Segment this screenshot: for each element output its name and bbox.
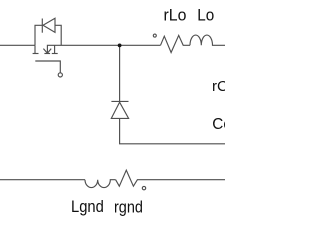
svg-text:rgnd: rgnd <box>114 198 143 217</box>
svg-text:Lgnd: Lgnd <box>71 197 104 216</box>
svg-text:Co: Co <box>212 116 225 133</box>
svg-text:rLo: rLo <box>164 7 187 25</box>
svg-text:rC: rC <box>212 78 225 95</box>
svg-text:Lo: Lo <box>197 7 214 25</box>
